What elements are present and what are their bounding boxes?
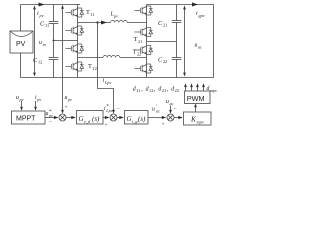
svg-text:PWM: PWM — [187, 94, 205, 103]
wire leg1 upper output (right part) — [127, 22, 146, 24]
svg-text:u: u — [152, 107, 155, 113]
svg-text:pv: pv — [67, 97, 72, 102]
capacitor C12 — [33, 41, 58, 78]
block G_v_d(s) — [77, 111, 104, 125]
label u'_ac — [152, 105, 160, 114]
block G_i_g(s) — [125, 111, 149, 125]
svg-text:−: − — [174, 106, 177, 112]
junction current tap — [96, 21, 98, 23]
svg-text:11: 11 — [45, 23, 49, 28]
svg-text:pv: pv — [36, 97, 41, 102]
svg-text:gpv: gpv — [199, 13, 205, 18]
leg 1 bus — [77, 5, 79, 78]
wire PV bottom lead — [20, 53, 22, 78]
svg-text:21: 21 — [138, 39, 142, 44]
capacitor C22 — [158, 42, 181, 78]
transistor T12 — [66, 62, 97, 71]
inductor lower — [103, 56, 120, 58]
wire Gi to summer3 — [148, 117, 165, 119]
wire top rail right — [147, 4, 214, 6]
svg-text:12: 12 — [93, 66, 97, 71]
wire leg1 lower output (left part) — [78, 57, 104, 59]
svg-text:(s): (s) — [138, 115, 146, 123]
summing junction 3 — [162, 114, 175, 128]
svg-text:21: 21 — [162, 88, 166, 93]
svg-text:−: − — [49, 119, 52, 125]
wire leg1 lower output (right part) — [120, 57, 147, 59]
svg-text:T: T — [86, 9, 90, 16]
wire grid right edge — [213, 5, 215, 78]
svg-text:in: in — [43, 42, 46, 47]
wire top rail left — [21, 4, 81, 6]
svg-text:G: G — [79, 115, 84, 123]
svg-text:12: 12 — [38, 60, 42, 65]
svg-text:v_d: v_d — [84, 119, 91, 124]
node mid wire to leg1 — [54, 40, 78, 42]
svg-text:Lpv: Lpv — [104, 80, 111, 85]
svg-text:MPPT: MPPT — [16, 116, 36, 123]
u_ac feed into summer3 — [166, 99, 177, 114]
transistor T22 — [133, 46, 153, 57]
svg-text:T: T — [88, 63, 92, 70]
transistor leg2 top (unlabeled) — [135, 6, 153, 15]
leg 2 bus — [146, 5, 148, 78]
wire MPPT to summer1, label u*_pv — [45, 110, 58, 125]
svg-text:T: T — [133, 49, 137, 56]
current feedback line i_Lpv — [98, 23, 114, 111]
wire PV top lead — [20, 5, 22, 32]
transistor T21 — [134, 28, 153, 44]
summing junction 1 — [59, 110, 66, 121]
svg-text:+: + — [105, 122, 108, 127]
svg-text:11: 11 — [136, 88, 140, 93]
wire leg2 mid to cap branch 2 — [147, 41, 177, 43]
wire Gv to summer2 — [103, 117, 109, 119]
svg-text:22: 22 — [163, 59, 167, 64]
wire summer3 to K block — [174, 117, 182, 119]
transistor (leg1 third, unlabeled) — [66, 44, 84, 53]
svg-text:Lpv: Lpv — [105, 108, 112, 113]
inductor L_pv — [110, 12, 128, 23]
wire summer2 to Gi — [117, 117, 123, 119]
svg-text:21: 21 — [163, 23, 167, 28]
wire summer1 to Gv — [66, 117, 75, 119]
capacitor C21 branch — [158, 5, 181, 42]
svg-text:+: + — [162, 122, 165, 128]
block PWM — [185, 91, 211, 104]
transistor leg2 bottom (unlabeled) — [135, 64, 153, 73]
voltage arrow u_ac (double headed) — [183, 6, 202, 77]
svg-text:12: 12 — [149, 88, 153, 93]
svg-text:pv: pv — [19, 97, 24, 102]
label d11, d12, d21, d22 — [133, 87, 179, 94]
svg-text:pv: pv — [113, 13, 118, 18]
summing junction 2 — [105, 106, 120, 128]
svg-text:G: G — [127, 115, 132, 123]
svg-text:T: T — [134, 36, 138, 43]
svg-text:−: − — [117, 106, 120, 112]
label i*_Lpv — [104, 105, 113, 114]
svg-text:pv: pv — [48, 113, 53, 118]
svg-text:22: 22 — [175, 88, 179, 93]
svg-text:(s): (s) — [92, 115, 100, 123]
transistor T11 — [66, 8, 95, 17]
PWM gate outputs d lines — [186, 85, 204, 91]
wire K to PWM — [194, 103, 197, 112]
PV source PV — [10, 31, 33, 53]
MPPT block — [12, 111, 46, 124]
junction dot mid node — [53, 40, 55, 42]
u_pv sense line from top rail down to summer1 — [61, 5, 72, 111]
MPPT input label i_pv — [34, 95, 41, 111]
svg-text:mpv: mpv — [197, 119, 204, 124]
label d_mpv — [207, 86, 218, 93]
svg-text:22: 22 — [137, 51, 141, 56]
current arrow i_gpv on right rail — [192, 3, 205, 18]
svg-text:11: 11 — [91, 12, 95, 17]
svg-text:mpv: mpv — [210, 88, 217, 93]
capacitor C11 branch — [40, 5, 58, 41]
wire bottom rail — [21, 77, 214, 79]
svg-text:pv: pv — [39, 13, 44, 18]
svg-text:ac: ac — [156, 109, 160, 114]
svg-text:ac: ac — [198, 44, 202, 49]
svg-text:PV: PV — [16, 41, 26, 48]
current arrow i_pv on top rail — [37, 3, 45, 18]
wire leg1 upper output (left part) — [78, 22, 111, 24]
voltage arrow u_in (double headed) — [33, 6, 46, 77]
block K_mpv — [184, 112, 212, 125]
transistor (leg1 second, unlabeled) — [66, 26, 84, 35]
MPPT input label u_pv — [16, 95, 24, 111]
current arrow on upper wire — [101, 21, 107, 25]
svg-text:+: + — [65, 105, 68, 111]
